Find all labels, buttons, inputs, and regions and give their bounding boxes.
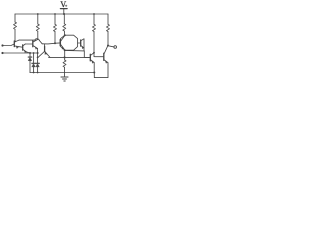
diode C (x=37.6) [36, 63, 40, 73]
crossover hop over x=37.8 [35, 39, 40, 41]
node Q3 emitter junction [37, 52, 39, 54]
wire Q1 collector to hop [19, 39, 35, 41]
node driver collector / R5 line [93, 52, 95, 54]
emitter bus vertical x=84.2 [83, 39, 85, 58]
wire Q2 emitter to input2 line [26, 52, 29, 53]
resistor R6 (x=108) [107, 14, 110, 45]
wire input1 to Q1 base [3, 44, 14, 45]
wire input2 line [3, 52, 38, 54]
diode B (x=33.6) [32, 53, 36, 73]
bottom ground rail [30, 72, 94, 74]
transistor Q5 inside circle [60, 36, 64, 50]
node diode C bottom [37, 72, 39, 74]
input terminal 2 [1, 52, 3, 54]
corner to driver base [84, 56, 90, 58]
wire circle bottom to emitter bus [65, 49, 85, 52]
wire Q4 emitter to driver base [49, 56, 91, 58]
node T4 left branch join [37, 57, 39, 59]
node: V+ to rail junction [63, 13, 65, 15]
wire Q2 collector to Q3 base [25, 43, 32, 45]
resistor R7 (mid bottom, x=64.5) [63, 50, 66, 72]
base wire to circled transistor [42, 43, 60, 44]
transistor Q7 (driver, bar x=90.3) [90, 53, 94, 64]
resistor R4 (x=64.3) [63, 14, 66, 35]
node emitter wire / mid resistor [64, 56, 66, 58]
wire R5 line bend to output base [94, 55, 104, 57]
top supply rail [15, 13, 108, 15]
node circle top [64, 34, 66, 36]
wire hop down to base line [39, 41, 42, 44]
power terminal V+ [60, 2, 67, 15]
transistor Q3 (bar x=32.8) [33, 40, 38, 54]
transistor Q2 (bar x=22.7) [23, 44, 27, 53]
node output [107, 45, 109, 47]
node R3 to base wire [54, 42, 56, 44]
wire Q3 emitter node down to diode C [37, 53, 39, 63]
resistor R3 (x=55) [54, 13, 57, 43]
node R1/Q1 collector [14, 41, 16, 43]
resistor R1 (left, x=15) [14, 14, 17, 41]
node diode B bottom [33, 72, 35, 74]
wire driver emitter down [93, 62, 95, 72]
node emitter/ground rail [93, 72, 95, 74]
output terminal circle [114, 46, 117, 49]
node diode B top [33, 52, 35, 54]
node circle bottom [64, 49, 66, 51]
input terminal 1 [1, 44, 3, 46]
diode A (x=30) [28, 53, 32, 73]
circled transistor Q5 envelope [61, 35, 78, 50]
wire to output terminal [108, 46, 114, 47]
resistor R5 (x=94) [93, 13, 96, 56]
transistor Q6 (right of circle, bar x=80.7) [78, 39, 84, 49]
transistor Q1 (input, bar x=14.3) [14, 40, 22, 48]
ground symbol [61, 73, 68, 82]
wire rail jog down right [94, 63, 108, 78]
transistor Q4 (phase splitter, vertical, bar x=44.6) [38, 44, 50, 58]
transistor Q8 (output, bar x=103.8) [104, 46, 108, 63]
resistor R2 (x=37.8) [36, 13, 39, 39]
node input2/Q2 emitter [29, 52, 31, 54]
